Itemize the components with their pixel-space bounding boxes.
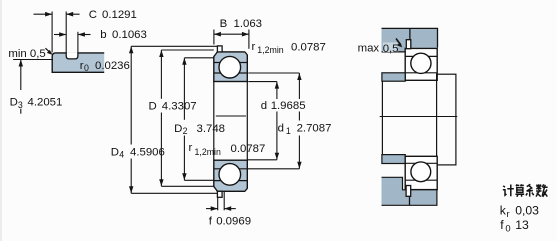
dimension D4 line [129, 46, 133, 53]
ball bottom [219, 164, 241, 186]
dimension C: dim line + outside arrows [34, 13, 53, 15]
svg-text:1: 1 [286, 126, 291, 136]
leader D bottom [161, 185, 213, 187]
svg-text:d: d [278, 123, 284, 135]
dimension D2 line [182, 58, 186, 65]
snap ring groove slot in detail [66, 52, 78, 59]
dimension D3: leader to groove bottom [13, 59, 53, 61]
dimension f: extension lines [217, 198, 219, 211]
label max 0,5 [383, 42, 398, 52]
dimension C: extension lines [51, 12, 53, 53]
leader D2 top [184, 57, 213, 59]
svg-text:r: r [252, 41, 256, 53]
bearing bottom section (right fig) [405, 156, 437, 189]
svg-text:0.0787: 0.0787 [231, 143, 266, 155]
svg-text:r: r [189, 142, 193, 154]
svg-text:0.0236: 0.0236 [95, 60, 130, 72]
snap ring bottom [217, 191, 222, 197]
svg-text:2: 2 [183, 126, 188, 136]
snap ring top [217, 46, 222, 52]
label calculation factors (Chinese) [503, 184, 548, 197]
dimension f: dim line + outside arrows [206, 208, 218, 210]
svg-text:13: 13 [515, 218, 529, 232]
leader d1 top [248, 72, 299, 74]
shaft shoulder top [382, 73, 405, 81]
dimension B: extension lines [213, 30, 215, 45]
dimension d1 line [297, 73, 301, 80]
svg-text:4.3307: 4.3307 [162, 101, 197, 113]
dimension D3: vertical line + up arrow [19, 60, 23, 67]
svg-text:1,2min: 1,2min [195, 147, 222, 157]
svg-text:0,03: 0,03 [515, 203, 539, 217]
dimension B: dim line + arrows [214, 33, 249, 35]
svg-text:0.0787: 0.0787 [291, 41, 326, 53]
shaft step line [381, 81, 383, 154]
top section body [214, 52, 248, 82]
leader D4 bottom [131, 192, 218, 194]
svg-text:D: D [111, 146, 119, 158]
leader min 0,5 [45, 48, 51, 53]
svg-text:r: r [507, 208, 510, 219]
shaft shoulder bottom [382, 155, 405, 164]
svg-text:d: d [261, 100, 267, 112]
svg-text:0,5: 0,5 [383, 43, 399, 55]
ball top [219, 56, 241, 78]
svg-text:4.5906: 4.5906 [130, 146, 165, 158]
leader D top [161, 49, 213, 51]
svg-text:0: 0 [84, 63, 89, 73]
inner ring shoulder line bottom [214, 168, 248, 170]
leader d bottom [247, 159, 277, 161]
leader max 0,5 [396, 39, 401, 46]
svg-text:0.1063: 0.1063 [112, 29, 147, 41]
inner ring shoulder line top [214, 72, 248, 74]
outer ring raceway line bottom [214, 180, 248, 182]
svg-text:B: B [220, 18, 228, 30]
svg-text:2.7087: 2.7087 [297, 123, 332, 135]
leader D4 top [131, 45, 217, 47]
dimension b: extension line [77, 32, 79, 53]
axis tick [216, 115, 246, 117]
svg-text:1.063: 1.063 [234, 18, 263, 30]
chamfer top-right of outer ring [245, 51, 249, 55]
leader d top [248, 81, 277, 83]
outer ring groove detail body [52, 53, 104, 72]
housing block top outline [382, 28, 438, 47]
svg-text:3: 3 [18, 100, 23, 110]
spacer sleeve right [437, 74, 456, 165]
svg-text:4: 4 [119, 150, 124, 160]
chamfer bottom-left of outer ring [213, 186, 217, 192]
chamfer bottom-right of outer ring [245, 188, 249, 192]
svg-text:max: max [358, 43, 380, 55]
svg-text:D: D [10, 97, 18, 109]
housing split line bottom [409, 196, 411, 205]
leader D2 bottom [184, 179, 214, 181]
ball top (right fig) [411, 53, 431, 73]
svg-text:min 0,5: min 0,5 [8, 48, 45, 60]
dimension D line [159, 50, 163, 57]
svg-text:1.9685: 1.9685 [271, 100, 306, 112]
svg-text:C: C [89, 9, 97, 21]
housing split line top [409, 28, 411, 40]
leader d1 bottom [247, 168, 299, 170]
snap ring bottom (right fig) [406, 186, 411, 197]
bore silhouette right [246, 82, 248, 161]
svg-text:3.748: 3.748 [197, 123, 226, 135]
snap ring top (right fig) [406, 40, 411, 49]
dimension d line [275, 82, 279, 89]
svg-text:0.0969: 0.0969 [216, 216, 251, 228]
bottom section body [214, 160, 248, 191]
svg-text:1,2min: 1,2min [257, 45, 284, 55]
svg-text:4.2051: 4.2051 [28, 97, 63, 109]
svg-text:0: 0 [505, 223, 510, 234]
svg-text:b: b [100, 29, 106, 41]
svg-text:0.1291: 0.1291 [102, 9, 137, 21]
outer ring raceway line top [214, 62, 248, 64]
axis line [380, 116, 458, 118]
dimension b: dim line + outside arrows [54, 34, 66, 36]
ball bottom (right fig) [411, 162, 431, 182]
housing block bottom [382, 177, 437, 205]
chamfer top-left of outer ring [213, 51, 217, 57]
bearing top section (right fig) [405, 48, 437, 80]
svg-text:D: D [174, 123, 182, 135]
housing block top [382, 28, 438, 52]
svg-text:D: D [149, 101, 157, 113]
bore silhouette left [213, 82, 215, 161]
